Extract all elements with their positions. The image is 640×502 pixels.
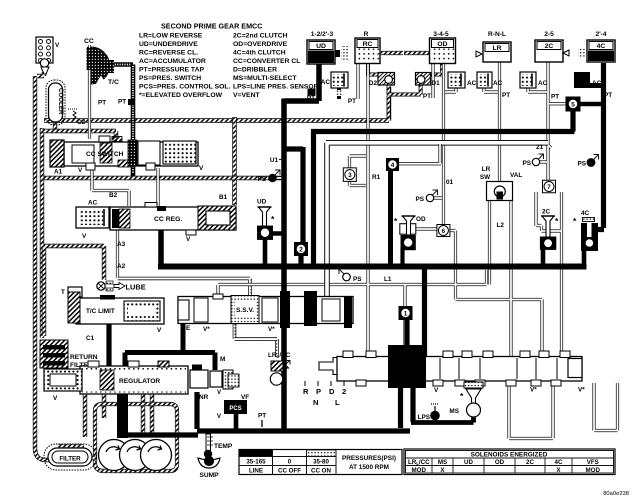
svg-text:OD: OD [495, 459, 505, 466]
switch PS 21 [522, 154, 543, 167]
lube tap [97, 281, 146, 292]
title legend [139, 22, 319, 99]
svg-text:1: 1 [404, 310, 408, 317]
svg-text:PT: PT [98, 100, 106, 107]
junction 5 [566, 97, 580, 111]
wire thick 5 right link [578, 102, 603, 107]
svg-text:VFS: VFS [587, 459, 599, 466]
accumulator AC 4c black [574, 72, 602, 88]
valve manual [319, 345, 582, 388]
svg-text:OD: OD [416, 216, 426, 223]
wire hatched cooler low line [44, 176, 282, 180]
dribbler D2 [369, 73, 395, 88]
svg-text:3-4-5: 3-4-5 [433, 31, 449, 38]
svg-text:35-80: 35-80 [313, 459, 329, 466]
svg-text:D2: D2 [369, 80, 378, 87]
svg-text:V: V [157, 327, 162, 334]
svg-text:7: 7 [547, 184, 551, 191]
solenoid LRL/CC [268, 352, 291, 385]
svg-text:V: V [434, 387, 439, 394]
switch PS L1 [339, 269, 362, 283]
wire wide channel pair [326, 143, 548, 300]
svg-text:PS=PRES. SWITCH: PS=PRES. SWITCH [139, 75, 201, 82]
svg-text:R1: R1 [372, 174, 381, 181]
svg-text:PT=PRESSURE TAP: PT=PRESSURE TAP [139, 66, 204, 73]
svg-text:R-N-L: R-N-L [488, 31, 506, 38]
svg-text:PT: PT [258, 413, 266, 420]
wire thick drain frame [197, 392, 410, 431]
wire thick OD ball drop [400, 249, 404, 264]
valve REGULATOR [44, 361, 188, 402]
svg-text:0: 0 [288, 459, 292, 466]
wire dotted lube line [118, 279, 251, 297]
wire thick manual valve down drops [401, 382, 414, 428]
coil C2 [68, 109, 86, 126]
accumulator AC lr [477, 72, 503, 88]
svg-text:VAL: VAL [510, 172, 522, 179]
wire thick converter feed dark [108, 65, 133, 177]
svg-text:2C: 2C [526, 459, 534, 466]
svg-text:PS: PS [257, 176, 266, 183]
svg-text:PS: PS [577, 161, 586, 168]
svg-text:V: V [53, 395, 58, 402]
thermometer TEMP [204, 434, 233, 458]
svg-text:2C: 2C [542, 209, 551, 216]
wire thick 4C AC link [588, 83, 603, 88]
svg-text:4C: 4C [581, 210, 590, 217]
solenoid MS [449, 382, 483, 417]
svg-text:LUBE: LUBE [126, 283, 146, 292]
svg-text:5: 5 [571, 101, 575, 108]
svg-text:UD: UD [316, 43, 326, 50]
solenoid OD [394, 216, 426, 250]
svg-text:PT: PT [551, 94, 559, 101]
svg-text:V: V [186, 236, 191, 243]
clutch UD 1-2/2-3 [307, 31, 349, 64]
junction 2 [295, 243, 308, 256]
wire dotted ssv to lrlcc line [235, 324, 278, 357]
vent screen [36, 37, 60, 74]
svg-text:T/C LIMIT: T/C LIMIT [86, 308, 115, 315]
svg-text:35-165: 35-165 [246, 459, 266, 466]
wire thick H2 horizontal [311, 109, 575, 132]
solenoid 4C [573, 210, 598, 251]
junction 6 [437, 225, 450, 237]
junction 7 [543, 180, 556, 193]
wire thick UD ball drop [265, 234, 283, 265]
wire thick trunk to valve drop [422, 269, 427, 358]
svg-text:1-2/2'-3: 1-2/2'-3 [311, 31, 334, 38]
svg-text:AC: AC [592, 80, 602, 87]
svg-text:PT: PT [604, 92, 612, 99]
svg-text:SUMP: SUMP [199, 472, 219, 479]
switch PS u1 [257, 170, 280, 183]
svg-text:L: L [335, 398, 340, 407]
wire hatched B1 line [232, 117, 236, 205]
valve S.S.V [178, 291, 353, 333]
label U1 [270, 157, 286, 164]
wire hatched dribbler U link [389, 84, 421, 119]
svg-text:B2: B2 [109, 192, 118, 199]
clutch 4C 2-4 [578, 31, 615, 62]
svg-text:2'-4: 2'-4 [595, 31, 606, 38]
svg-text:6: 6 [442, 228, 446, 235]
svg-text:UD: UD [464, 459, 473, 466]
svg-text:MS: MS [438, 459, 447, 466]
svg-text:AC: AC [538, 80, 548, 87]
svg-text:AC: AC [493, 80, 503, 87]
valve T/C LIMIT [68, 292, 164, 334]
clutch 2C 2-5 [535, 31, 569, 62]
wire hatched left cooler pipe [35, 72, 58, 460]
valve regulator extension [190, 365, 249, 402]
svg-text:L2: L2 [497, 222, 505, 229]
accumulator AC od [448, 72, 477, 88]
accumulator AC cc [76, 200, 109, 241]
svg-text:NR: NR [199, 394, 209, 401]
svg-text:80a0e238: 80a0e238 [603, 491, 629, 497]
filter [44, 444, 96, 470]
svg-text:21: 21 [536, 144, 544, 151]
label M [220, 356, 225, 363]
cooler [46, 80, 65, 125]
svg-text:LRL/CC: LRL/CC [408, 459, 430, 466]
wire thin circled4 output [396, 144, 441, 164]
svg-text:2C: 2C [545, 43, 554, 50]
solenoid 2C [540, 209, 559, 250]
svg-text:*=ELEVATED OVERFLOW: *=ELEVATED OVERFLOW [139, 92, 223, 99]
svg-text:OD=OVERDRIVE: OD=OVERDRIVE [233, 41, 288, 48]
svg-text:D1: D1 [432, 80, 441, 87]
wire thick V1 main vertical [281, 99, 287, 299]
pressure table [239, 450, 402, 475]
wire thick CC REG A2 riser [158, 230, 164, 265]
wire thick main trunk [158, 264, 587, 270]
svg-text:PT: PT [502, 92, 510, 99]
svg-text:UD: UD [257, 199, 267, 206]
svg-text:CC ON: CC ON [311, 468, 331, 475]
wire thick regulator pump drop [117, 394, 128, 438]
torque converter T/C [84, 38, 119, 86]
svg-text:SW: SW [480, 174, 491, 181]
svg-text:AC: AC [321, 79, 331, 86]
wire hatched filter link [58, 446, 95, 458]
pump [99, 440, 172, 471]
svg-text:R: R [303, 387, 309, 396]
return filter [40, 340, 98, 369]
svg-text:L1: L1 [384, 276, 392, 283]
svg-text:2C=2nd CLUTCH: 2C=2nd CLUTCH [233, 33, 288, 40]
label PT pcs [258, 413, 266, 428]
svg-text:C1: C1 [86, 335, 95, 342]
wire hatched t/c limit frame [44, 246, 104, 336]
svg-text:D=DRIBBLER: D=DRIBBLER [233, 66, 277, 73]
wire thick C1 drop [106, 322, 111, 366]
clutch RC reverse [355, 31, 380, 64]
svg-text:E: E [186, 325, 191, 332]
svg-text:PCS=PRES. CONTROL SOL.: PCS=PRES. CONTROL SOL. [139, 83, 231, 90]
svg-text:RETURN: RETURN [70, 354, 98, 361]
switch PS od [415, 190, 437, 203]
svg-text:AT 1500 RPM: AT 1500 RPM [349, 464, 389, 471]
svg-text:PT: PT [307, 95, 315, 102]
wire hatched pump housing [95, 404, 177, 471]
dribbler D1 [416, 73, 441, 88]
svg-text:2: 2 [342, 387, 346, 396]
wire hatched regulator pump links [85, 361, 166, 437]
svg-text:LR=LOW REVERSE: LR=LOW REVERSE [139, 33, 203, 40]
svg-text:B1: B1 [219, 194, 228, 201]
svg-text:4C: 4C [555, 459, 563, 466]
svg-text:U1: U1 [270, 157, 279, 164]
svg-text:MS: MS [449, 408, 459, 415]
solenoid PCS vfs [217, 374, 247, 420]
wire hatched cooler return vertical [40, 128, 44, 338]
svg-text:V: V [199, 165, 204, 172]
pressure tap labels top row [307, 89, 612, 106]
svg-text:PS: PS [353, 276, 362, 283]
svg-text:A3: A3 [117, 241, 126, 248]
svg-text:PS: PS [522, 160, 531, 167]
svg-text:RC: RC [363, 41, 373, 48]
wire hatched dribbler feeds [368, 64, 443, 77]
svg-text:S.S.V.: S.S.V. [236, 307, 254, 314]
switch PS 4c [577, 155, 598, 168]
svg-text:PCS: PCS [229, 406, 241, 412]
wire thin 5 left link [549, 102, 566, 105]
svg-text:LPS: LPS [418, 414, 431, 421]
svg-text:4C: 4C [597, 43, 606, 50]
svg-text:SOLENOIDS ENERGIZED: SOLENOIDS ENERGIZED [471, 452, 548, 459]
svg-text:V*: V* [203, 326, 210, 333]
svg-text:A1: A1 [54, 169, 63, 176]
pressure taps tc [98, 99, 134, 107]
svg-text:PT: PT [348, 98, 356, 105]
svg-text:D: D [329, 387, 335, 396]
gear position labels [303, 381, 346, 407]
sensor LPS [418, 404, 440, 421]
wire thick V3 vertical [311, 132, 316, 267]
wire thick UD clutch drop [284, 62, 319, 101]
svg-text:V: V [78, 167, 83, 174]
accumulator AC 2c [520, 72, 548, 88]
svg-text:P: P [316, 387, 321, 396]
svg-text:LPS=LINE PRES. SENSOR: LPS=LINE PRES. SENSOR [233, 83, 319, 90]
svg-text:V: V [82, 233, 87, 240]
svg-text:AC: AC [467, 80, 477, 87]
svg-text:PS: PS [415, 196, 424, 203]
wire thick E drop and M bus [125, 322, 215, 370]
svg-text:VF: VF [241, 394, 249, 401]
svg-text:2: 2 [299, 246, 303, 253]
valve CC SWITCH [50, 136, 204, 176]
junction 4 [387, 159, 399, 171]
clutch OD 3-4-5 [430, 31, 456, 64]
svg-text:V*: V* [530, 387, 537, 394]
svg-text:T: T [61, 289, 65, 296]
svg-text:PT: PT [423, 93, 431, 100]
wire thick V1 ssv drop [281, 320, 287, 431]
svg-text:MS=MULTI-SELECT: MS=MULTI-SELECT [233, 75, 297, 82]
svg-text:M: M [220, 356, 225, 363]
wire thin network [90, 45, 618, 439]
svg-text:01: 01 [446, 179, 454, 186]
svg-text:R: R [364, 31, 369, 38]
wire hatched cooler outlet to cc switch [42, 122, 116, 138]
svg-text:OD: OD [437, 41, 447, 48]
wire thick circled4 drop [388, 169, 393, 264]
svg-text:V: V [55, 42, 60, 49]
wire thick circled1 drop [404, 319, 409, 358]
svg-text:N: N [313, 398, 318, 407]
svg-text:CC: CC [84, 38, 94, 45]
svg-text:UD=UNDERDRIVE: UD=UNDERDRIVE [139, 41, 198, 48]
svg-text:4: 4 [391, 162, 395, 169]
svg-text:SECOND PRIME GEAR EMCC: SECOND PRIME GEAR EMCC [161, 22, 262, 31]
svg-text:MOD: MOD [412, 467, 427, 474]
svg-text:REGULATOR: REGULATOR [119, 378, 160, 385]
svg-text:3: 3 [348, 172, 352, 179]
svg-text:MOD: MOD [586, 467, 601, 474]
svg-text:COOLER: COOLER [57, 88, 64, 115]
wire thick 4C ball drop [582, 250, 587, 264]
svg-text:CC=CONVERTER CL: CC=CONVERTER CL [233, 58, 300, 65]
wire thick 2C ball drop [541, 249, 546, 264]
wire thick 4C right vertical [596, 63, 604, 230]
svg-text:RC=REVERSE CL.: RC=REVERSE CL. [139, 50, 198, 57]
svg-text:LINE: LINE [249, 468, 263, 475]
svg-text:V*: V* [578, 387, 585, 394]
wire thick PCS drop [234, 413, 239, 429]
svg-text:LR: LR [482, 166, 491, 173]
clutch LR R-N-L [476, 31, 511, 62]
svg-text:V*: V* [268, 326, 275, 333]
junction 3 [343, 168, 356, 182]
solenoid table [404, 449, 615, 475]
wire thick MS LPS line [411, 417, 474, 423]
svg-text:FILTER: FILTER [59, 456, 81, 463]
svg-text:V=VENT: V=VENT [233, 92, 260, 99]
svg-text:CC REG.: CC REG. [154, 216, 182, 223]
svg-text:C: C [113, 137, 118, 144]
junction 1 [399, 307, 412, 320]
wire thick stub and circled2 line [283, 147, 303, 264]
svg-text:TEMP: TEMP [214, 443, 233, 450]
valve CC REG [110, 203, 236, 244]
solenoid UD [257, 199, 275, 240]
svg-text:CC OFF: CC OFF [278, 468, 301, 475]
svg-text:CC SWITCH: CC SWITCH [86, 151, 124, 158]
accumulator AC ud [321, 72, 348, 99]
svg-text:AC=ACCUMULATOR: AC=ACCUMULATOR [139, 58, 206, 65]
svg-text:LR: LR [492, 45, 501, 52]
thermal valve T [61, 287, 82, 297]
valve LR switch [480, 166, 523, 201]
wire hatched rc-od channel [380, 51, 429, 55]
svg-text:T/C: T/C [108, 79, 119, 86]
wire hatched converter line horizontal [44, 87, 389, 121]
svg-text:A2: A2 [117, 263, 126, 270]
svg-text:PT: PT [118, 99, 126, 106]
svg-text:2-5: 2-5 [544, 31, 554, 38]
svg-text:AC: AC [88, 200, 98, 207]
sump [198, 452, 220, 479]
svg-text:LRL/CC: LRL/CC [268, 352, 291, 359]
svg-text:C2: C2 [77, 119, 86, 126]
svg-text:4C=4th CLUTCH: 4C=4th CLUTCH [233, 50, 286, 57]
svg-text:PRESSURES(PSI): PRESSURES(PSI) [342, 455, 396, 462]
